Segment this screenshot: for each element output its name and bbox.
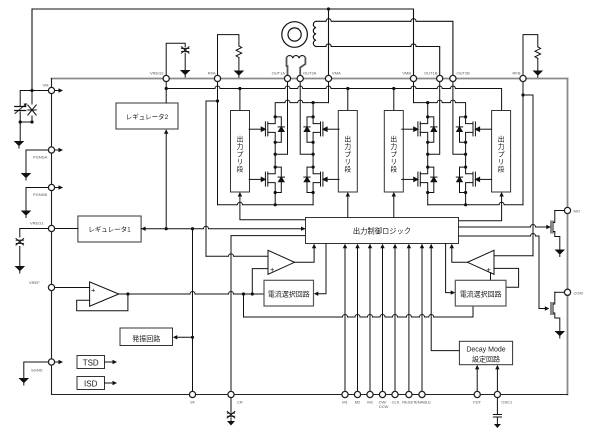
svg-text:力: 力 xyxy=(237,142,244,151)
svg-text:力: 力 xyxy=(498,142,505,151)
zener D-VM xyxy=(31,91,33,123)
wire prestage block2 drive xyxy=(347,196,349,217)
TSD box xyxy=(77,356,105,369)
svg-text:出: 出 xyxy=(237,134,244,143)
wire OSC1 to decay mode box xyxy=(496,369,498,391)
transistor Q4 bridgeA col2 low-side xyxy=(304,166,339,195)
svg-text:M1: M1 xyxy=(342,400,348,405)
pin OUT2A xyxy=(297,75,303,81)
pin OUT1B xyxy=(437,75,443,81)
oscillator box xyxy=(120,328,173,346)
capacitor C-CR external xyxy=(230,398,232,421)
svg-text:OUT2B: OUT2B xyxy=(457,71,471,76)
wire bridge B source rail xyxy=(428,202,523,204)
wire RFB external loop xyxy=(523,35,538,76)
transistor Q9 MO open drain xyxy=(551,211,560,250)
svg-text:出: 出 xyxy=(344,134,351,143)
wire comparator A plus input from VREF xyxy=(252,269,268,294)
wire PGNDA input arrow xyxy=(54,149,59,151)
wire VREG1 pin to regulator1 xyxy=(54,228,78,230)
wire col1 mid and source xyxy=(274,142,276,205)
svg-text:出力制御ロジック: 出力制御ロジック xyxy=(353,227,411,236)
transistor Q6 bridgeB col3 low-side xyxy=(402,166,437,195)
svg-text:CCW: CCW xyxy=(379,404,389,409)
capacitor C-VREG2 xyxy=(181,47,189,53)
wire bridge A drain rail xyxy=(275,100,328,117)
wire col4 mid and source xyxy=(465,142,467,205)
wire RFA pin line down to source rail xyxy=(217,82,219,205)
regulator1 box xyxy=(78,216,141,242)
ground VREG1 external xyxy=(14,266,25,273)
wire col2 mid and source xyxy=(312,142,314,205)
prestage block3 xyxy=(384,111,403,193)
svg-text:電流選択回路: 電流選択回路 xyxy=(460,290,502,299)
inductor coil B (vertical) xyxy=(313,21,316,46)
wire col3 mid and source xyxy=(427,142,429,205)
wire CLK input xyxy=(394,248,396,391)
pin M1 xyxy=(342,391,348,397)
pin RESET xyxy=(406,391,412,397)
svg-text:OUT1A: OUT1A xyxy=(272,71,286,76)
wire SGND input arrow xyxy=(54,361,59,363)
output control logic box xyxy=(306,218,459,244)
wire comparator B output to logic xyxy=(452,248,468,262)
svg-text:VREG2: VREG2 xyxy=(150,71,164,76)
prestage block4 xyxy=(492,111,511,193)
wire VREG1 external xyxy=(20,229,48,267)
svg-text:SF: SF xyxy=(190,400,196,405)
wire comparator B top input from RFB sense xyxy=(494,255,533,257)
wire coil B top to OUT2B xyxy=(316,19,453,76)
transistor Q8 bridgeB col4 low-side xyxy=(456,166,491,195)
svg-text:ENABLE: ENABLE xyxy=(415,400,431,405)
pin VMA xyxy=(325,75,331,81)
wire OUT1A tap xyxy=(275,82,287,155)
wire comparator B plus input loop from current select B xyxy=(494,268,519,287)
pin SF xyxy=(189,391,195,397)
ground PGNDB xyxy=(21,211,32,218)
wire logic to current select B arrow xyxy=(446,244,451,293)
wire COM pin xyxy=(555,291,565,293)
svg-text:TSD: TSD xyxy=(83,359,99,368)
svg-text:M2: M2 xyxy=(355,400,361,405)
svg-text:RFB: RFB xyxy=(513,71,521,76)
svg-text:PGNDB: PGNDB xyxy=(33,192,48,197)
svg-text:PGNDA: PGNDA xyxy=(33,155,48,160)
pin OUT1A xyxy=(284,75,290,81)
resistor R-RFB sense xyxy=(535,47,541,59)
wire FDT to decay mode box xyxy=(476,369,478,391)
pin COM xyxy=(564,289,570,295)
svg-text:RESET: RESET xyxy=(402,400,416,405)
wire VM supply top rail xyxy=(32,9,414,91)
wire RFA sense branch xyxy=(206,101,218,256)
current select A box xyxy=(264,280,314,306)
svg-text:COM: COM xyxy=(574,290,583,295)
wire ENABLE input xyxy=(421,248,423,391)
pin OSC1 with external capacitor xyxy=(494,391,500,397)
svg-text:+: + xyxy=(91,286,96,295)
wire SF line xyxy=(192,229,194,392)
wire VMA pin into bridge A drain rail xyxy=(328,82,330,103)
svg-text:リ: リ xyxy=(237,159,244,166)
svg-text:OUT2A: OUT2A xyxy=(303,71,317,76)
wire op-amp output to current select A xyxy=(119,292,264,295)
svg-text:MO: MO xyxy=(574,209,580,214)
wire VM node to pin xyxy=(32,90,48,92)
wire OUT2B tap xyxy=(453,82,466,155)
svg-text:VM: VM xyxy=(43,83,49,88)
pin ENABLE xyxy=(419,391,425,397)
wire VREF to reference rail drop xyxy=(243,294,245,317)
wire bridge A source rail xyxy=(218,202,314,204)
comparator B xyxy=(468,250,495,274)
wire VM input arrow xyxy=(54,90,59,92)
wire regulator2 bottom feed xyxy=(165,134,167,229)
wire prestage block3 top stub xyxy=(393,89,395,111)
svg-text:VREF: VREF xyxy=(29,280,40,285)
wire ISD output arrow xyxy=(105,382,114,384)
pin MO xyxy=(564,207,570,213)
pin CR with external capacitor xyxy=(228,391,234,397)
svg-text:ISD: ISD xyxy=(84,380,98,389)
svg-text:リ: リ xyxy=(390,159,397,166)
regulator2 box xyxy=(116,103,178,129)
svg-text:レギュレータ2: レギュレータ2 xyxy=(126,112,169,121)
transistor Q1 bridgeA col1 high-side xyxy=(249,115,284,144)
svg-text:段: 段 xyxy=(237,164,244,173)
svg-text:発振回路: 発振回路 xyxy=(132,334,160,343)
wire regulator1 output line to logic xyxy=(141,226,305,228)
svg-text:レギュレータ1: レギュレータ1 xyxy=(88,225,131,234)
pin PGNDA xyxy=(48,147,54,153)
wire RESET input xyxy=(408,248,410,391)
pin VMB xyxy=(410,75,416,81)
resistor R-RFA sense xyxy=(236,46,242,58)
wire SGND external xyxy=(24,362,48,378)
wire VMB pin into bridge B drain rail xyxy=(413,82,415,103)
IC package outline xyxy=(52,78,568,80)
pin PGNDB xyxy=(48,184,54,190)
pin OUT2B xyxy=(450,75,456,81)
svg-text:プ: プ xyxy=(237,150,244,158)
wire PGNDA external xyxy=(26,150,48,173)
pin CLK xyxy=(392,391,398,397)
pin CW/CCW xyxy=(379,391,385,397)
svg-text:段: 段 xyxy=(390,164,397,173)
svg-text:プ: プ xyxy=(390,150,397,158)
svg-text:プ: プ xyxy=(344,150,351,158)
wire comparator B bottom stub to current select B xyxy=(490,273,492,281)
ground VM external xyxy=(19,122,21,141)
ground COM source xyxy=(555,331,566,338)
wire coil B bottom to OUT1B xyxy=(316,44,440,76)
ISD box xyxy=(77,377,105,390)
wire M2 input xyxy=(357,248,359,391)
wire oscillator input arrow xyxy=(177,336,193,338)
svg-text:プ: プ xyxy=(498,150,505,158)
svg-text:OSC1: OSC1 xyxy=(501,400,513,405)
current select B box xyxy=(455,280,506,306)
svg-text:SGND: SGND xyxy=(31,368,43,373)
wire op-amp feedback loop xyxy=(77,294,128,311)
pin VREG1 xyxy=(48,225,54,231)
pin M2 xyxy=(354,391,360,397)
wire M1 input xyxy=(344,248,346,391)
ground RFB external xyxy=(533,71,544,78)
wire logic to current select A arrow xyxy=(318,244,326,294)
wire prestage block1 top stub xyxy=(239,89,241,111)
svg-text:+: + xyxy=(270,265,275,274)
wire CR line xyxy=(231,236,306,392)
wire VM cap/zener bottom node xyxy=(20,121,32,123)
svg-text:VMA: VMA xyxy=(332,71,341,76)
wire logic line L2 to COM gate xyxy=(459,234,546,309)
inductor coil A (horizontal) xyxy=(287,56,306,59)
wire PGNDB external xyxy=(26,188,48,211)
wire VREG2 pin to regulator2 xyxy=(165,82,167,103)
pin VREG2 xyxy=(163,75,169,81)
svg-text:リ: リ xyxy=(344,159,351,166)
wire prestage block1 drive xyxy=(240,196,306,220)
svg-text:力: 力 xyxy=(390,142,397,151)
transistor Q2 bridgeA col1 low-side xyxy=(249,166,284,195)
ground RFA external xyxy=(234,71,245,78)
transistor Q5 bridgeB col3 high-side xyxy=(402,115,437,144)
svg-text:CLK: CLK xyxy=(392,400,400,405)
ground SGND external xyxy=(19,378,30,385)
prestage block2 xyxy=(338,111,357,193)
wire decay mode to logic xyxy=(431,248,459,351)
wire TSD output arrow xyxy=(105,361,114,363)
wire CW/CCW input xyxy=(382,248,384,391)
wire bridge B drain rail xyxy=(414,100,466,117)
wire RFA external loop xyxy=(218,35,239,76)
pin RFA xyxy=(214,75,220,81)
wire logic line L1 to MO gate xyxy=(459,225,547,228)
wire reference rail under logic xyxy=(244,306,474,317)
svg-text:段: 段 xyxy=(344,164,351,173)
wire prestage block2 top stub xyxy=(347,89,349,111)
wire coil A right to OUT2A xyxy=(300,58,305,75)
wire M3 input xyxy=(369,248,371,391)
prestage block1 xyxy=(231,111,250,193)
svg-text:CR: CR xyxy=(237,400,243,405)
wire VMA to top rail xyxy=(328,9,330,75)
transistor Q7 bridgeB col4 high-side xyxy=(456,115,491,144)
pin SGND xyxy=(48,359,54,365)
wire VREG2 external loop xyxy=(166,43,185,75)
ground MO source xyxy=(555,250,566,257)
svg-text:リ: リ xyxy=(498,159,505,166)
svg-text:電流選択回路: 電流選択回路 xyxy=(268,290,310,299)
wire PGNDB input arrow xyxy=(54,187,59,189)
svg-text:FDT: FDT xyxy=(473,400,481,405)
comparator A xyxy=(268,250,295,274)
pin RFB xyxy=(520,75,526,81)
wire comparator A top input from RFA sense xyxy=(206,254,268,257)
wire VREF pin to op-amp xyxy=(54,287,90,289)
pin M3 xyxy=(367,391,373,397)
svg-text:RFA: RFA xyxy=(208,71,216,76)
ground PGNDA xyxy=(21,173,32,180)
wire MO pin xyxy=(555,210,565,212)
svg-text:出: 出 xyxy=(498,134,505,143)
wire RFB pin line down to source rail xyxy=(522,82,524,205)
wire RFB sense branch xyxy=(523,95,533,256)
wire OUT2A tap xyxy=(300,82,313,155)
wire coil A left to OUT1A xyxy=(287,58,288,75)
wire prestage block3 drive xyxy=(393,196,395,217)
ground VREG2 external xyxy=(180,70,191,77)
transistor Q3 bridgeA col2 high-side xyxy=(304,115,339,144)
wire prestage block4 drive xyxy=(459,196,502,220)
capacitor C-VREG1 xyxy=(16,239,24,245)
wire comparator A output to logic xyxy=(295,248,315,262)
capacitor C-OSC1 external xyxy=(496,398,498,424)
motor M1 symbol xyxy=(282,22,308,48)
svg-text:段: 段 xyxy=(498,164,505,173)
pin FDT xyxy=(474,391,480,397)
capacitor C-VM (polarized) xyxy=(20,91,32,123)
op-amp U1 VREF buffer xyxy=(90,282,119,306)
svg-text:出: 出 xyxy=(390,134,397,143)
svg-text:VREG1: VREG1 xyxy=(30,221,44,226)
svg-text:VMB: VMB xyxy=(402,71,411,76)
svg-text:設定回路: 設定回路 xyxy=(472,354,500,363)
pin VREF xyxy=(48,284,54,290)
svg-text:M3: M3 xyxy=(367,400,373,405)
svg-text:OUT1B: OUT1B xyxy=(424,71,438,76)
svg-text:力: 力 xyxy=(344,142,351,151)
pin VM xyxy=(48,87,54,93)
wire VREG2 rail to prestage blocks xyxy=(166,86,501,111)
svg-text:Decay Mode: Decay Mode xyxy=(466,346,505,353)
wire OUT1B tap xyxy=(428,82,440,155)
decay mode box xyxy=(459,341,512,364)
transistor Q10 COM open drain xyxy=(551,292,560,331)
